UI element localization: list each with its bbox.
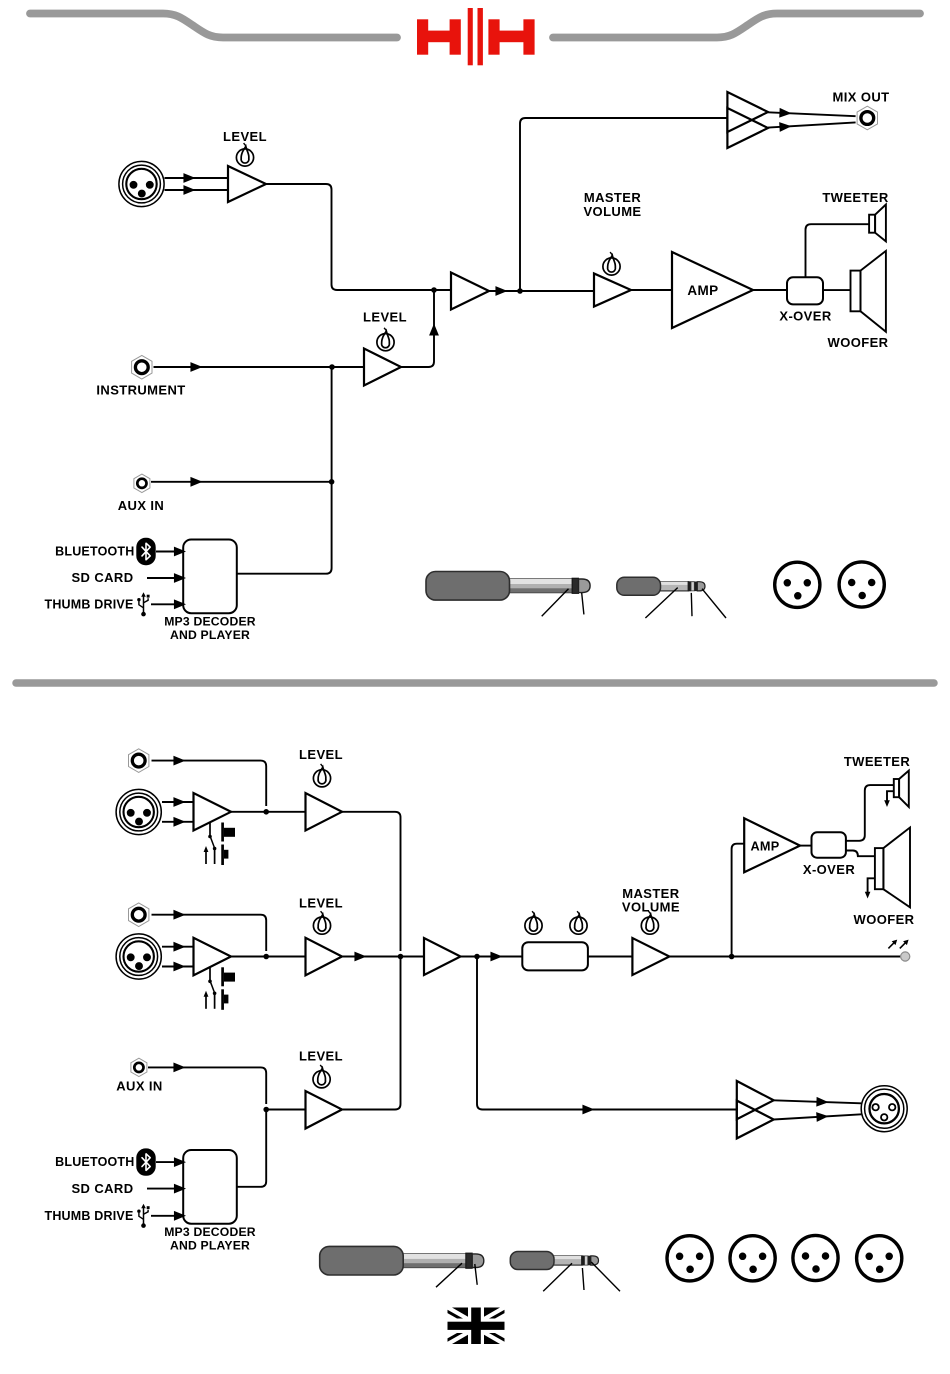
- node C junction: [329, 364, 335, 370]
- wire x-over to woofer: [823, 289, 851, 291]
- wire x-over to tweeter: [806, 224, 870, 277]
- tweeter feed arrow: [887, 791, 894, 801]
- power amp U5: [672, 252, 753, 328]
- knob VR8 master: [641, 911, 658, 934]
- jack plug illustration (1/4 inch): [426, 572, 590, 601]
- arrow ch1 line: [174, 757, 183, 764]
- wire U2 out: [489, 290, 594, 292]
- arrow into tone box: [491, 953, 500, 960]
- woofer SP2: [875, 828, 910, 908]
- svg-text:LEVEL: LEVEL: [223, 129, 267, 144]
- XLR face bottom 4: [857, 1236, 902, 1281]
- svg-text:X-OVER: X-OVER: [803, 862, 855, 877]
- wire ch1 cold: [162, 821, 194, 823]
- svg-text:TWEETER: TWEETER: [822, 190, 889, 205]
- wire tone to master: [588, 956, 633, 958]
- summing amp U11: [424, 938, 461, 975]
- node D junction aux: [329, 479, 335, 485]
- svg-text:TWEETER: TWEETER: [844, 754, 911, 769]
- wire mix out cold: [768, 122, 856, 127]
- INSTRUMENT jack J3: [132, 355, 152, 379]
- svg-text:VOLUME: VOLUME: [583, 204, 641, 219]
- wire thumb drive: [151, 603, 174, 605]
- node E junction: [263, 809, 269, 815]
- svg-text:LEVEL: LEVEL: [299, 895, 343, 910]
- HH logo letter H1: [417, 19, 461, 54]
- woofer feed arrow: [868, 878, 875, 893]
- XLR face bottom 3: [793, 1235, 838, 1280]
- XLR face bottom 2: [730, 1236, 775, 1281]
- svg-text:THUMB DRIVE: THUMB DRIVE: [44, 1209, 133, 1223]
- wire aux to level amp: [266, 1109, 305, 1111]
- arrow out cold: [817, 1113, 826, 1120]
- arrow ch1 hot: [174, 799, 183, 806]
- woofer SP1: [851, 251, 886, 332]
- svg-text:BLUETOOTH: BLUETOOTH: [55, 545, 134, 559]
- wire sd card (bottom): [147, 1188, 174, 1190]
- svg-text:AUX IN: AUX IN: [116, 1078, 162, 1093]
- svg-text:WOOFER: WOOFER: [854, 912, 915, 927]
- wire mix out hot: [768, 112, 856, 116]
- arrow bluetooth (bottom): [175, 1159, 184, 1166]
- mix out buffer U3b: [727, 108, 768, 148]
- knob VR7 tone: [570, 911, 587, 934]
- instrument level amp U6: [364, 349, 401, 386]
- arrow sd card: [175, 575, 184, 582]
- AUX IN jack J4: [134, 474, 150, 492]
- jack plug pointer lines bottom: [436, 1263, 477, 1287]
- arrow ch1 cold: [174, 818, 183, 825]
- wire U4 to power amp: [631, 289, 672, 291]
- usb icon: [137, 592, 149, 616]
- svg-text:WOOFER: WOOFER: [828, 335, 889, 350]
- ch2 level amp U10: [306, 938, 343, 976]
- arrow mix cold: [780, 123, 789, 130]
- usb icon (bottom): [137, 1204, 149, 1228]
- svg-text:SD CARD: SD CARD: [71, 1181, 133, 1196]
- wire sum out: [461, 956, 523, 958]
- knob VR6 tone: [525, 911, 542, 934]
- ch1 line jack J5: [129, 749, 149, 773]
- wire mp3 to bus (bottom): [237, 1110, 266, 1187]
- arrow after U2: [496, 288, 505, 295]
- union jack flag: [448, 1308, 505, 1345]
- jack plug pointer lines: [542, 589, 584, 617]
- wire bluetooth to mp3: [156, 551, 174, 553]
- knob VR5: [313, 911, 330, 934]
- wire riser to mix out: [520, 118, 727, 291]
- MP3 decoder box: [183, 540, 237, 614]
- svg-text:MP3 DECODER: MP3 DECODER: [164, 1225, 256, 1239]
- ch2 mic/line switch: [204, 967, 235, 1010]
- wire aux level to bus up: [342, 957, 401, 1110]
- arrow sd card (bottom): [175, 1185, 184, 1192]
- bluetooth icon (bottom): [136, 1148, 155, 1175]
- wire instrument in: [154, 366, 365, 368]
- mini jack pointer lines: [645, 588, 726, 618]
- wire bluetooth (bottom): [156, 1161, 174, 1163]
- wire amp to x-over: [800, 845, 812, 847]
- HH logo bars: [468, 8, 483, 65]
- node G junction bus: [398, 954, 404, 960]
- XLR mic input J1: [119, 161, 164, 206]
- mic preamp U1: [228, 166, 266, 202]
- bluetooth icon: [136, 538, 155, 565]
- wire x-over to woofer: [846, 851, 875, 857]
- wire ch1 line in: [152, 761, 267, 806]
- mini jack pointer lines bottom: [543, 1262, 620, 1291]
- ch1 level amp U8: [306, 793, 343, 831]
- XLR face symbol 2: [839, 562, 884, 607]
- tweeter TW2: [894, 771, 909, 807]
- knob VR2: [377, 328, 394, 351]
- arrow ch2 out: [355, 953, 364, 960]
- XLR output J9: [861, 1086, 907, 1132]
- ch1 XLR input J6: [116, 789, 161, 834]
- svg-text:AND PLAYER: AND PLAYER: [170, 1239, 250, 1253]
- arrow aux (bottom): [174, 1064, 183, 1071]
- svg-text:BLUETOOTH: BLUETOOTH: [55, 1155, 134, 1169]
- mix out buffer U3a: [727, 92, 768, 132]
- wire ch2 line in: [152, 915, 267, 951]
- wire amp to x-over: [753, 289, 787, 291]
- knob VR4: [313, 764, 330, 787]
- link out terminal: [901, 952, 910, 961]
- X-OVER box (bottom): [812, 832, 846, 857]
- node J junction: [263, 1107, 269, 1113]
- ch2 XLR input J8: [116, 934, 161, 979]
- arrow to buffers: [583, 1106, 592, 1113]
- svg-text:X-OVER: X-OVER: [779, 309, 831, 324]
- tone control box: [522, 942, 588, 970]
- wire branch to output buffers: [477, 957, 737, 1110]
- svg-text:LEVEL: LEVEL: [299, 1049, 343, 1064]
- svg-text:MP3 DECODER: MP3 DECODER: [164, 614, 256, 628]
- arrow thumb drive (bottom): [175, 1212, 184, 1219]
- header swoosh left: [30, 14, 397, 38]
- mini jack illustration (3.5mm): [617, 577, 705, 595]
- aux level amp U15: [306, 1091, 343, 1129]
- wire ch2 to sum: [342, 956, 424, 958]
- HH logo letter H2: [488, 19, 534, 54]
- arrow mix hot: [780, 109, 789, 116]
- header swoosh right: [553, 14, 920, 38]
- XLR face bottom 1: [667, 1236, 712, 1281]
- svg-text:AND PLAYER: AND PLAYER: [170, 628, 250, 642]
- svg-text:MASTER: MASTER: [584, 190, 642, 205]
- section divider: [16, 679, 934, 687]
- arrow on mic hot: [184, 175, 193, 182]
- knob VR1: [236, 143, 253, 166]
- wire ch2 hot: [162, 946, 194, 948]
- wire ch2 cold: [162, 966, 194, 968]
- arrow bluetooth: [175, 548, 184, 555]
- wire ch2 preamp out: [231, 956, 306, 958]
- jack plug illustration bottom: [320, 1246, 484, 1275]
- arrow ch2 hot: [174, 943, 183, 950]
- wire thumb drive (bottom): [151, 1215, 174, 1217]
- wire mic cold: [165, 189, 229, 191]
- wire mic hot: [165, 177, 229, 179]
- arrow out hot: [817, 1098, 826, 1105]
- AUX IN jack J10: [131, 1058, 147, 1076]
- knob VR9: [313, 1065, 330, 1088]
- mini jack illustration bottom: [510, 1252, 598, 1270]
- svg-text:AMP: AMP: [687, 283, 718, 298]
- X-OVER box: [787, 277, 823, 304]
- wire riser to power amp: [732, 844, 745, 957]
- arrow ch2 cold: [174, 963, 183, 970]
- arrow on mic cold: [184, 187, 193, 194]
- svg-text:INSTRUMENT: INSTRUMENT: [96, 382, 185, 397]
- arrow instrument: [191, 364, 200, 371]
- output buffer U14b: [737, 1101, 774, 1139]
- output buffer U14a: [737, 1081, 774, 1119]
- power amp U13: [744, 818, 800, 872]
- master amp U12: [632, 938, 669, 975]
- wire U1 out to bus: [266, 184, 451, 290]
- wire ch1 preamp out: [231, 811, 306, 813]
- summing amp U2: [451, 273, 489, 310]
- node I junction: [729, 954, 735, 960]
- node H junction: [474, 954, 480, 960]
- wire out cold: [774, 1114, 862, 1119]
- arrow thumb drive: [175, 601, 184, 608]
- svg-text:AUX IN: AUX IN: [118, 498, 164, 513]
- node B junction: [517, 288, 523, 294]
- master volume amp U4: [594, 274, 631, 307]
- MP3 decoder box (bottom): [183, 1150, 237, 1224]
- node F junction: [263, 954, 269, 960]
- wire ch1 to bus: [342, 812, 401, 951]
- svg-text:SD CARD: SD CARD: [71, 570, 133, 585]
- wire sd card: [147, 577, 174, 579]
- svg-text:LEVEL: LEVEL: [363, 310, 407, 325]
- MIX OUT jack J2: [857, 106, 877, 130]
- wire ch1 hot: [162, 801, 194, 803]
- wire aux bus vertical: [237, 367, 332, 574]
- svg-text:AMP: AMP: [750, 839, 779, 853]
- arrow ch2 line: [174, 911, 183, 918]
- tweeter TW1: [869, 205, 886, 242]
- node A junction: [431, 287, 437, 293]
- arrow up to node A: [431, 326, 438, 335]
- wire master out to link: [669, 956, 900, 958]
- wire aux in (bottom): [148, 1067, 266, 1104]
- ch1 mic/line switch: [204, 823, 235, 866]
- ch1 preamp U7: [194, 793, 232, 831]
- svg-text:MIX OUT: MIX OUT: [833, 90, 890, 105]
- wire U6 out up to node A: [401, 290, 434, 367]
- svg-text:THUMB DRIVE: THUMB DRIVE: [44, 598, 133, 612]
- ch2 preamp U9: [194, 938, 232, 976]
- wire out hot: [774, 1100, 862, 1103]
- ch2 line jack J7: [129, 903, 149, 927]
- link out arrows: [888, 940, 908, 949]
- wire x-over to tweeter: [846, 785, 894, 841]
- arrow aux: [191, 478, 200, 485]
- wire aux in: [151, 481, 332, 483]
- knob VR3 master: [603, 252, 620, 275]
- svg-text:LEVEL: LEVEL: [299, 747, 343, 762]
- XLR face symbol 1: [775, 562, 820, 607]
